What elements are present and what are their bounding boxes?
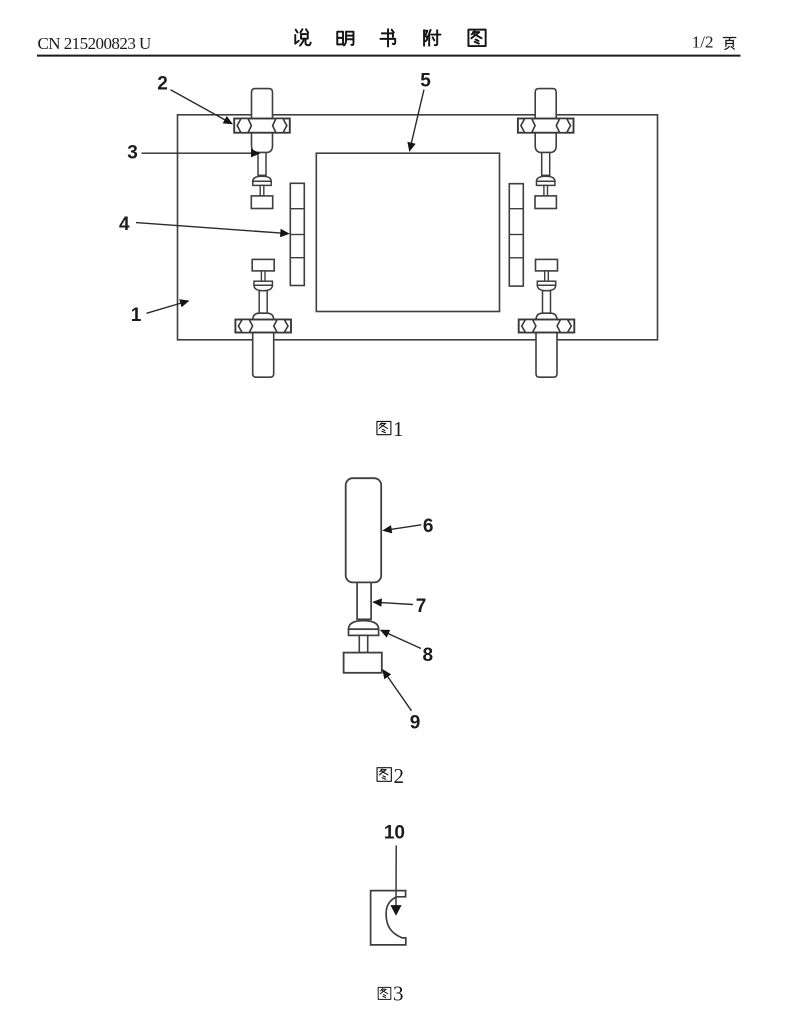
fig2 foot block (item 9) xyxy=(344,653,382,673)
fig1 top-left clamp hex nut bar xyxy=(234,119,290,133)
fig1 top-left clamp foot block xyxy=(251,196,272,209)
fig2 leader arrow 7 xyxy=(381,603,413,605)
fig1 left guide rail (item 4) xyxy=(290,183,304,285)
fig3 caption glyph TU xyxy=(378,987,391,999)
fig1 bottom-left clamp rod xyxy=(259,291,267,314)
fig1 top-right clamp cylinder (screw body) xyxy=(535,89,556,153)
fig1 base plate (item 1) xyxy=(178,115,658,340)
fig2 rod (item 7) xyxy=(357,582,371,619)
fig1 top-right clamp small stem xyxy=(544,185,548,196)
fig1 top-right clamp foot block xyxy=(535,196,556,209)
fig2 leader arrow 6 xyxy=(391,525,422,530)
fig1 bottom-right clamp dome pad xyxy=(537,281,555,285)
fig1 top-left clamp dome pad xyxy=(253,176,271,181)
svg-text:3: 3 xyxy=(393,982,404,1006)
header page glyph YE xyxy=(723,37,735,49)
fig1 bottom-left clamp foot block xyxy=(252,259,274,271)
fig1 bottom-right clamp hex nut bar xyxy=(519,320,575,333)
fig1 top-right clamp dome pad xyxy=(537,176,555,181)
svg-text:7: 7 xyxy=(416,596,427,617)
header title glyph SHU xyxy=(380,29,395,46)
fig2 cylinder body (item 6) xyxy=(346,478,382,582)
svg-text:6: 6 xyxy=(423,516,434,537)
header title glyph TU xyxy=(468,30,485,46)
fig1 leader arrow 4 xyxy=(136,223,281,234)
header title glyph SHUO xyxy=(295,29,310,45)
header title glyph FU xyxy=(424,30,440,46)
svg-text:5: 5 xyxy=(420,71,431,92)
fig1 top-left clamp cylinder (screw body) xyxy=(252,89,273,153)
svg-text:1: 1 xyxy=(393,417,404,441)
fig2 dome pad (item 8) xyxy=(349,621,379,630)
fig1 bottom-right clamp cylinder (screw body) xyxy=(536,313,557,377)
fig1 leader arrow 2 xyxy=(171,90,226,120)
header title glyph MING xyxy=(337,32,353,46)
header rule xyxy=(37,55,741,57)
fig1 top-right clamp hex nut bar xyxy=(518,119,574,133)
fig1 bottom-left clamp dome pad xyxy=(254,281,272,285)
fig2 leader arrow 8 xyxy=(388,633,422,648)
fig2 caption glyph TU xyxy=(377,768,391,782)
fig1 caption glyph TU xyxy=(377,421,391,434)
fig1 bottom-left clamp hex nut bar xyxy=(235,320,291,333)
fig1 leader arrow 1 xyxy=(147,303,182,313)
svg-text:1: 1 xyxy=(131,305,142,326)
fig1 bottom-left clamp small stem xyxy=(261,271,265,281)
fig2 small stem xyxy=(359,635,367,652)
svg-text:10: 10 xyxy=(384,822,405,843)
svg-text:2: 2 xyxy=(394,764,405,788)
fig1 top-left clamp rod xyxy=(258,153,266,176)
svg-text:4: 4 xyxy=(119,214,130,235)
fig1 bottom-right clamp small stem xyxy=(545,271,549,281)
fig1 bottom-right clamp foot block xyxy=(536,259,558,271)
svg-text:CN 215200823 U: CN 215200823 U xyxy=(38,34,151,53)
fig1 bottom-right clamp rod xyxy=(543,291,551,314)
fig1 leader arrow 3 xyxy=(142,152,253,154)
fig3 clamp jaw block (item 10) xyxy=(371,891,406,945)
svg-text:3: 3 xyxy=(127,143,138,164)
fig1 bottom-left clamp cylinder (screw body) xyxy=(253,313,274,377)
fig1 top-right clamp rod xyxy=(542,153,550,176)
svg-text:8: 8 xyxy=(423,645,434,666)
svg-text:2: 2 xyxy=(157,73,168,94)
fig1 leader arrow 5 xyxy=(411,90,424,144)
svg-text:1/2: 1/2 xyxy=(692,33,714,52)
fig1 work platform (item 5) xyxy=(316,153,499,311)
fig3 leader arrow 10 xyxy=(395,846,397,907)
fig1 right guide rail xyxy=(509,184,523,286)
fig1 top-left clamp small stem xyxy=(260,185,264,196)
fig2 leader arrow 9 xyxy=(387,676,411,711)
svg-text:9: 9 xyxy=(410,713,421,734)
